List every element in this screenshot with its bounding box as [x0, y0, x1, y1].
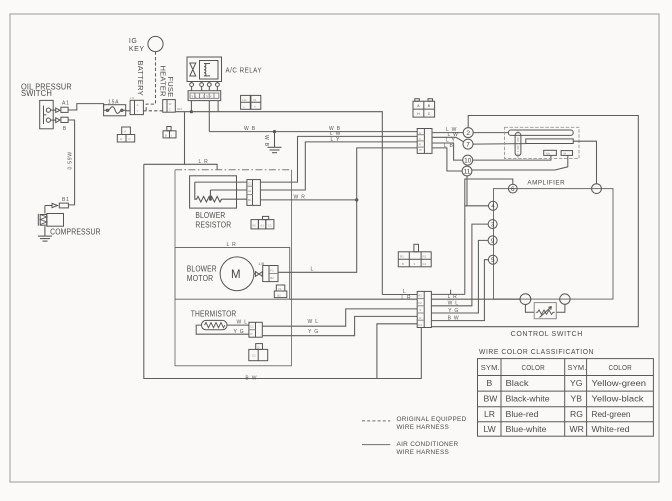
svg-text:L R: L R	[227, 242, 237, 248]
svg-text:F2: F2	[418, 301, 422, 305]
svg-text:WR: WR	[570, 424, 584, 434]
svg-text:SWITCH: SWITCH	[21, 89, 52, 98]
svg-text:Yellow-black: Yellow-black	[592, 394, 645, 404]
wire relay strip pin to bus	[217, 101, 219, 112]
svg-text:7: 7	[466, 142, 470, 149]
svg-text:R: R	[419, 132, 421, 136]
wire strip to circle 11	[432, 148, 462, 171]
svg-text:A1: A1	[248, 189, 252, 193]
short tick above L R line	[450, 290, 452, 295]
amplifier detail box	[505, 127, 580, 158]
blower motor M1	[220, 257, 254, 291]
svg-text:2: 2	[466, 130, 470, 137]
harness wire L R drop to inner box	[185, 164, 218, 170]
control switch circle B (bottom edge)	[560, 294, 570, 304]
wire W R from resistor connector to junction	[260, 199, 356, 201]
wire junction up to vertical strip connector	[357, 148, 418, 200]
svg-text:3: 3	[491, 222, 495, 229]
svg-text:W L: W L	[237, 319, 248, 325]
svg-text:THERMISTOR: THERMISTOR	[191, 309, 237, 318]
wire circle 2 to amplifier bar	[473, 132, 508, 134]
wire R2 right side to circle-6 vertical	[431, 293, 464, 295]
wire junction down to blower motor L wire	[278, 200, 357, 272]
blower resistor connector	[247, 180, 261, 206]
svg-text:Yellow-green: Yellow-green	[592, 378, 647, 388]
wire circle 11 to amplifier small box M	[472, 155, 568, 170]
connector A1 (arrow + pin)	[51, 107, 69, 112]
wire W L thermistor to bottom strip	[262, 309, 417, 326]
wire Y G to circle 9	[431, 240, 488, 313]
capsule dash-dot axis	[517, 130, 519, 159]
svg-text:W: W	[419, 148, 422, 152]
svg-text:AMPLIFIER: AMPLIFIER	[527, 179, 565, 186]
svg-text:F1: F1	[278, 287, 282, 291]
small connector below heater fuse	[163, 127, 176, 138]
relay coil box	[200, 61, 219, 80]
wire A1 to fuse	[68, 104, 104, 110]
terminal circle 6 (on top edge)	[508, 184, 517, 193]
big loop: circle 2 up, right, down to control switch area	[431, 116, 638, 327]
A/C harness inner box (dash-dot)	[175, 169, 292, 171]
IG KEY circle	[148, 36, 163, 51]
svg-text:YB: YB	[571, 394, 583, 404]
thermistor connector	[249, 322, 262, 337]
svg-text:90: 90	[252, 223, 256, 227]
svg-text:4: 4	[491, 203, 495, 210]
bottom strip connector (5-cell)	[417, 291, 431, 327]
svg-text:R: R	[419, 142, 421, 146]
ground G1 (below W B line)	[268, 132, 282, 153]
svg-text:Red-green: Red-green	[592, 409, 631, 419]
svg-text:G1: G1	[423, 262, 427, 266]
svg-text:MOTOR: MOTOR	[187, 274, 214, 283]
svg-text:0.59W: 0.59W	[68, 151, 74, 169]
plain terminal circle (top edge right)	[592, 184, 602, 194]
relay U1 body	[187, 57, 222, 82]
svg-text:W: W	[169, 102, 172, 106]
terminal circle 9 (left edge)	[488, 236, 497, 245]
svg-text:C: C	[129, 137, 131, 141]
junction node (bus)	[190, 110, 193, 113]
harness wire from bus down-left (L R feed)	[144, 112, 185, 165]
svg-text:BLOWER: BLOWER	[187, 265, 217, 274]
amplifier small box M2	[561, 151, 572, 156]
svg-text:A: A	[124, 130, 126, 134]
svg-text:B: B	[487, 378, 493, 388]
control switch circle A (bottom edge)	[520, 294, 531, 305]
terminal circle 2	[463, 128, 473, 138]
wire circle 11/6 link	[466, 176, 468, 206]
wire G1 cell from B W loop up to bottom strip	[377, 324, 417, 379]
tab connector (floating, mid)	[398, 244, 431, 266]
battery connector	[130, 100, 143, 114]
svg-text:5: 5	[491, 257, 495, 264]
svg-text:Blue-white: Blue-white	[506, 424, 547, 434]
wire heater fuse connector to junction	[175, 111, 191, 113]
blower resistor R1 box	[190, 176, 237, 208]
wire L Y from resistor connector (up and right)	[260, 142, 417, 190]
wire circle 7 to amplifier bar2	[473, 143, 526, 146]
svg-text:C: C	[169, 108, 171, 112]
svg-text:D: D	[251, 332, 253, 336]
svg-text:B1: B1	[248, 198, 252, 202]
svg-text:YG: YG	[570, 378, 583, 388]
resistor internal wires to connector	[195, 182, 247, 199]
motor bowtie connector	[254, 272, 262, 277]
svg-text:W L: W L	[448, 301, 459, 307]
svg-text:COMPRESSUR: COMPRESSUR	[50, 227, 101, 236]
svg-text:W B: W B	[263, 135, 269, 147]
svg-text:White-red: White-red	[592, 424, 630, 434]
legend: dashed original equipped wire harness	[362, 420, 390, 422]
svg-text:SYM.: SYM.	[568, 363, 587, 372]
wire color classification table	[478, 359, 654, 437]
amplifier vertical capsule	[515, 133, 521, 156]
fuse 15A body	[104, 105, 126, 116]
svg-text:L R: L R	[401, 295, 411, 301]
motor connector	[263, 266, 278, 282]
svg-text:B W: B W	[448, 316, 460, 322]
svg-text:6: 6	[511, 186, 515, 193]
wire B down to compressor connector B1	[68, 120, 75, 205]
svg-text:D: D	[419, 316, 421, 320]
svg-text:M: M	[231, 269, 241, 281]
small 3-cell connector below resistor	[251, 216, 274, 229]
svg-text:H: H	[120, 137, 122, 141]
resistor tap node	[209, 198, 212, 201]
L R wire (motor box bottom to control switch circle A)	[290, 298, 418, 300]
small connector below fuse (left)	[117, 127, 134, 142]
wire strip to circle 2	[432, 132, 464, 134]
svg-text:SYM.: SYM.	[481, 363, 500, 372]
svg-text:FUSE: FUSE	[166, 77, 175, 98]
svg-text:LR: LR	[484, 409, 495, 419]
connector A B / H C (top middle right)	[413, 99, 435, 117]
svg-text:D: D	[257, 345, 259, 349]
svg-text:R1: R1	[423, 254, 427, 258]
svg-text:C1: C1	[268, 223, 272, 227]
variable resistor box between A and B	[525, 303, 565, 319]
svg-text:C1: C1	[248, 181, 252, 185]
wire relay strip to bus junction	[190, 101, 192, 112]
wire relay strip down to W B line	[208, 101, 210, 132]
original-harness left vertical + B W bottom loop	[144, 164, 422, 378]
thermistor wires to connector	[227, 324, 249, 326]
svg-text:C1: C1	[252, 353, 256, 357]
blower motor sub-box	[175, 248, 290, 300]
svg-text:YL1J3Y: YL1J3Y	[191, 94, 213, 98]
vertical strip connector (4-cell)	[417, 129, 432, 154]
svg-text:A: A	[137, 103, 139, 107]
connector B (arrow + pin)	[51, 117, 69, 122]
svg-text:C1: C1	[250, 325, 254, 329]
svg-text:R2: R2	[418, 294, 422, 298]
compressor ground	[38, 226, 52, 241]
svg-text:Blue-red: Blue-red	[506, 409, 539, 419]
svg-text:BW: BW	[484, 394, 499, 404]
oil pressure switch body	[40, 100, 54, 128]
svg-text:B: B	[402, 262, 404, 266]
svg-text:C: C	[419, 137, 421, 141]
heater fuse connector	[163, 100, 176, 113]
svg-text:Y: Y	[254, 105, 256, 109]
svg-text:WIRE COLOR CLASSIFICATION: WIRE COLOR CLASSIFICATION	[479, 349, 594, 356]
thermistor TH1 (capsule with zigzag)	[202, 320, 228, 329]
svg-text:COLOR: COLOR	[609, 363, 633, 372]
amplifier small box Wa	[544, 150, 557, 155]
svg-text:IG: IG	[129, 38, 138, 45]
svg-text:L B: L B	[444, 143, 454, 149]
wire fuse to battery connector	[126, 110, 130, 112]
wire strip to circle 7	[432, 137, 464, 142]
compressor body	[38, 214, 63, 227]
svg-text:X1: X1	[253, 98, 257, 102]
svg-text:CONTROL SWITCH: CONTROL SWITCH	[511, 331, 583, 338]
svg-text:RESISTOR: RESISTOR	[195, 221, 231, 230]
svg-text:W L: W L	[308, 319, 319, 325]
svg-text:L R: L R	[130, 96, 134, 100]
svg-text:A1: A1	[62, 101, 70, 107]
svg-text:KEY: KEY	[129, 46, 145, 53]
control switch box	[494, 189, 614, 300]
wire circle 10 to amplifier small box Wa	[473, 155, 551, 160]
amplifier top bar	[508, 130, 573, 135]
svg-text:LW: LW	[484, 424, 497, 434]
terminal circle 10	[463, 155, 473, 165]
svg-text:AIR CONDITIONER: AIR CONDITIONER	[397, 441, 459, 448]
relay connector strip	[188, 91, 221, 101]
amplifier second bar	[526, 139, 573, 144]
2x2 connector right of relay	[241, 95, 261, 109]
svg-text:W B: W B	[244, 126, 256, 132]
svg-text:W R: W R	[294, 194, 306, 200]
svg-text:Y G: Y G	[234, 329, 245, 335]
svg-text:B W: B W	[245, 375, 257, 381]
svg-text:L Y: L Y	[331, 137, 341, 143]
svg-text:Wa: Wa	[546, 152, 551, 156]
svg-text:10: 10	[464, 158, 472, 165]
relay pins (4 circles)	[190, 82, 220, 91]
svg-text:B2: B2	[277, 294, 281, 298]
svg-text:Black-white: Black-white	[506, 394, 550, 404]
svg-text:Y: Y	[137, 109, 139, 113]
svg-text:R2: R2	[400, 254, 404, 258]
svg-text:ORIGINAL EQUIPPED: ORIGINAL EQUIPPED	[397, 416, 467, 423]
relay diode (hourglass symbol)	[190, 63, 196, 76]
svg-text:9: 9	[491, 238, 495, 245]
svg-text:L: L	[311, 267, 315, 273]
terminal circle 3 (left edge)	[488, 220, 497, 229]
terminal circle 4 (left edge)	[489, 201, 498, 210]
svg-text:11: 11	[464, 168, 471, 175]
svg-text:WIRE HARNESS: WIRE HARNESS	[397, 424, 450, 431]
wire amplifier bar2 right to plain terminal circle	[573, 141, 596, 184]
terminal circle 7	[463, 139, 473, 149]
W R junction node	[355, 198, 358, 201]
svg-text:BATTERY: BATTERY	[136, 61, 145, 96]
terminal circle 11	[462, 166, 472, 176]
svg-text:HC: HC	[243, 98, 247, 102]
svg-text:Black: Black	[506, 378, 530, 388]
svg-text:30A: 30A	[177, 107, 182, 111]
svg-text:L R: L R	[448, 294, 458, 300]
svg-text:B2: B2	[270, 276, 274, 280]
main bus wire to the right, corner down at x=382.3	[191, 112, 382, 295]
W B wire to vertical strip connector	[209, 131, 417, 133]
svg-text:Y G: Y G	[448, 308, 459, 314]
svg-text:A1: A1	[260, 223, 264, 227]
wire bus vertical into strip R2 (left)	[382, 294, 417, 296]
wire B1 down to compressor	[44, 206, 46, 214]
small connector below motor	[274, 285, 287, 298]
dashed wire IG key down to bus	[146, 52, 155, 111]
junction node on W B	[273, 130, 276, 133]
svg-text:B: B	[165, 134, 167, 138]
small connector below thermistor	[249, 344, 268, 361]
svg-text:B: B	[63, 126, 67, 132]
wire Y G thermistor to bottom strip	[262, 316, 417, 335]
svg-text:WIRE HARNESS: WIRE HARNESS	[397, 449, 450, 456]
wire to circle 4	[465, 205, 489, 207]
legend: solid air conditioner wire harness	[362, 444, 390, 446]
wire W L to circle 3	[431, 224, 488, 306]
svg-text:G1: G1	[418, 323, 422, 327]
compressor B1 connector	[45, 203, 69, 208]
wire circle 6 up-left-down to L R line	[465, 179, 513, 294]
wire B W to circle 5	[431, 260, 488, 321]
svg-text:F1: F1	[270, 269, 274, 273]
svg-text:A/C RELAY: A/C RELAY	[226, 67, 263, 74]
terminal circle 5 (left edge)	[488, 255, 497, 264]
svg-text:Y G: Y G	[308, 329, 319, 335]
wire L W from resistor connector (up and right)	[260, 136, 417, 182]
svg-text:COLOR: COLOR	[522, 363, 546, 372]
svg-text:BLOWER: BLOWER	[195, 211, 225, 220]
blower resistor element (zigzag with tap)	[195, 182, 223, 202]
svg-text:B1: B1	[62, 197, 70, 203]
dashed wire battery connector to heater fuse connector	[143, 110, 162, 112]
wire strip to circle 10	[432, 143, 463, 160]
svg-text:RG: RG	[570, 409, 583, 419]
